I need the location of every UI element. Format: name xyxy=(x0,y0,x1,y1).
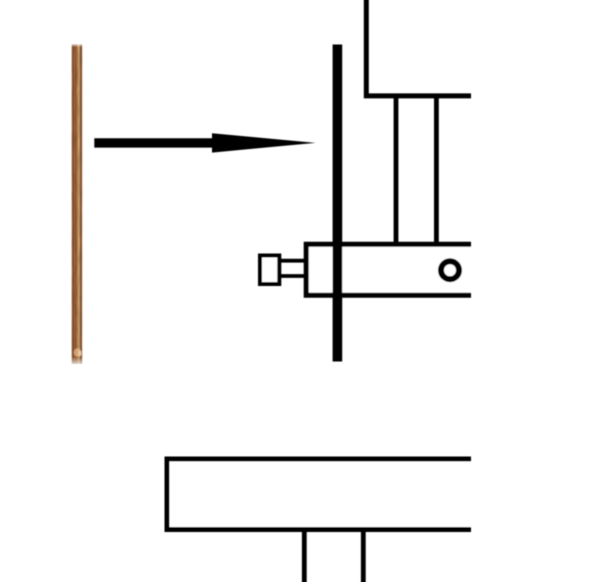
thumbscrew shaft top edge xyxy=(280,259,306,263)
support plate bar xyxy=(333,45,343,362)
copper rod xyxy=(72,44,83,364)
base leg left xyxy=(302,531,307,582)
thumbscrew knob xyxy=(260,256,279,285)
clamp hole xyxy=(441,261,459,279)
thumbscrew shaft bottom edge xyxy=(280,274,306,278)
clamp arm body xyxy=(306,244,471,295)
holder neck right line xyxy=(434,96,439,243)
top bracket outline xyxy=(366,0,471,96)
base leg right xyxy=(361,531,366,582)
holder neck left line xyxy=(394,96,399,243)
arrow xyxy=(94,133,315,152)
base box xyxy=(167,459,471,530)
